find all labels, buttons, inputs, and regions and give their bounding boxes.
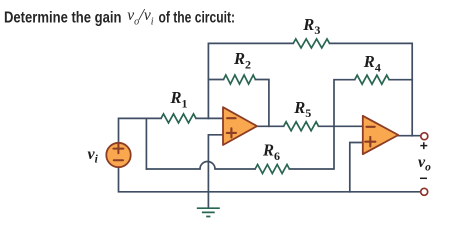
svg-text:vi: vi xyxy=(88,146,99,166)
svg-text:R2: R2 xyxy=(233,49,251,71)
svg-text:R4: R4 xyxy=(363,52,381,74)
svg-text:R3: R3 xyxy=(302,15,320,37)
svg-text:vo: vo xyxy=(418,154,431,174)
svg-text:Determine the gain: Determine the gain xyxy=(4,10,122,27)
svg-text:vo/vi: vo/vi xyxy=(127,5,154,28)
svg-text:R1: R1 xyxy=(170,88,188,110)
svg-text:R5: R5 xyxy=(293,98,311,120)
svg-text:of the circuit:: of the circuit: xyxy=(159,10,236,27)
svg-text:R6: R6 xyxy=(262,141,280,163)
